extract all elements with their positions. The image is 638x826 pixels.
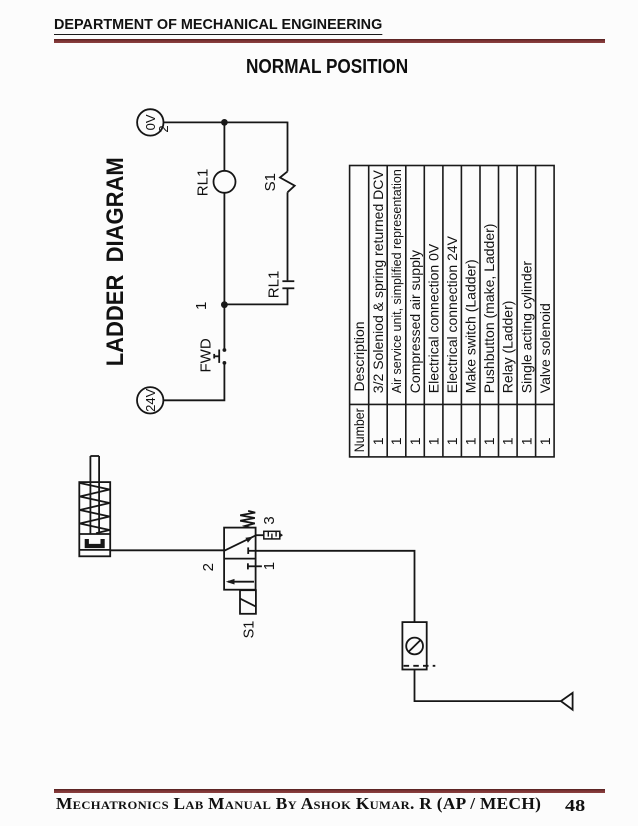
pushbutton FWD (make)	[223, 348, 227, 352]
make switch S1	[280, 171, 295, 192]
svg-text:24V: 24V	[143, 388, 158, 411]
24V supply circle	[137, 387, 163, 413]
valve position divider	[224, 558, 256, 560]
relay coil RL1	[214, 171, 236, 193]
svg-text:FWD: FWD	[198, 338, 215, 372]
svg-text:S1: S1	[241, 621, 257, 639]
svg-text:1: 1	[444, 437, 460, 445]
pneumatic circuit	[79, 456, 572, 710]
piston seal (thick U)	[87, 539, 103, 546]
wire: pushbutton to 24V rail	[163, 363, 224, 400]
pipe: cylinder to valve	[110, 549, 224, 551]
svg-text:1: 1	[481, 437, 497, 445]
svg-text:2: 2	[200, 563, 217, 571]
cylinder piston	[79, 533, 110, 535]
svg-text:Description: Description	[351, 321, 367, 391]
valve blocked port 1 (active box)	[248, 550, 255, 552]
0V supply circle	[137, 109, 163, 135]
page number 48	[565, 796, 582, 816]
svg-text:1: 1	[500, 437, 516, 445]
pipe: service unit to supply	[415, 670, 561, 702]
footer text	[56, 794, 519, 814]
svg-text:3/2 Soleniod & spring returned: 3/2 Soleniod & spring returned DCV	[370, 170, 386, 394]
svg-text:Number: Number	[351, 408, 367, 452]
svg-text:Compressed air supply: Compressed air supply	[407, 250, 423, 393]
footer maroon rule	[54, 789, 605, 793]
svg-text:Relay (Ladder): Relay (Ladder)	[500, 301, 516, 394]
node 1 junction	[221, 301, 228, 308]
svg-text:2: 2	[156, 125, 171, 132]
svg-text:RL1: RL1	[195, 169, 212, 197]
air service unit dashed line	[404, 665, 436, 667]
relay contact RL1 (make)	[282, 280, 294, 282]
cylinder cap line / port line	[79, 549, 110, 551]
valve blocked port (second box)	[248, 565, 262, 567]
svg-text:LADDER DIAGRAM: LADDER DIAGRAM	[102, 157, 129, 366]
parts list table	[350, 166, 554, 457]
svg-text:1: 1	[463, 437, 479, 445]
node junction top	[221, 119, 228, 126]
svg-text:1: 1	[518, 437, 534, 445]
svg-text:Electrical connection 24V: Electrical connection 24V	[444, 235, 460, 393]
svg-text:S1: S1	[262, 173, 279, 191]
table outer border	[350, 166, 554, 457]
wire: S1 to contact	[287, 192, 289, 280]
wire: top rail 0V	[164, 121, 288, 123]
wire: contact to node 1	[224, 288, 287, 304]
svg-text:RL1: RL1	[265, 271, 282, 299]
svg-text:1: 1	[261, 562, 278, 570]
svg-text:Electrical connection 0V: Electrical connection 0V	[426, 243, 442, 393]
table number strip divider	[350, 403, 554, 405]
pipe: valve port 1 to air service unit	[256, 551, 415, 622]
valve return spring	[240, 511, 255, 528]
single acting cylinder body	[79, 482, 110, 556]
svg-text:Single acting cylinder: Single acting cylinder	[518, 261, 534, 394]
cylinder return spring	[80, 483, 110, 533]
header: department title	[54, 16, 396, 35]
valve flow path 2-3 with arrow	[224, 535, 256, 550]
table column lines	[368, 166, 370, 457]
exhaust silencer at port 3	[256, 534, 264, 536]
valve solenoid S1	[240, 590, 256, 614]
svg-text:1: 1	[388, 437, 404, 445]
svg-text:Air service unit, simplified r: Air service unit, simplified representat…	[390, 169, 404, 393]
cylinder piston rod	[89, 456, 91, 534]
svg-text:Valve solenoid: Valve solenoid	[537, 303, 553, 393]
svg-text:1: 1	[537, 437, 553, 445]
svg-text:Pushbutton (make, Ladder): Pushbutton (make, Ladder)	[481, 224, 497, 394]
wire: node 1 down to pushbutton	[223, 305, 225, 350]
compressed air supply triangle	[561, 693, 573, 710]
wire: coil to node 1	[223, 193, 225, 305]
header maroon rule	[54, 39, 605, 43]
svg-text:3: 3	[261, 516, 278, 524]
svg-text:1: 1	[407, 437, 423, 445]
svg-text:Make switch (Ladder): Make switch (Ladder)	[463, 259, 479, 393]
page title	[246, 56, 435, 79]
3/2 valve body	[224, 528, 256, 590]
air service unit	[402, 622, 426, 669]
svg-text:1: 1	[370, 437, 386, 445]
wire: right branch down from rail	[287, 122, 289, 172]
wire: rung to relay coil	[223, 122, 225, 170]
svg-text:1: 1	[193, 302, 210, 310]
svg-text:1: 1	[426, 437, 442, 445]
valve flow arrow (second box)	[228, 581, 254, 583]
